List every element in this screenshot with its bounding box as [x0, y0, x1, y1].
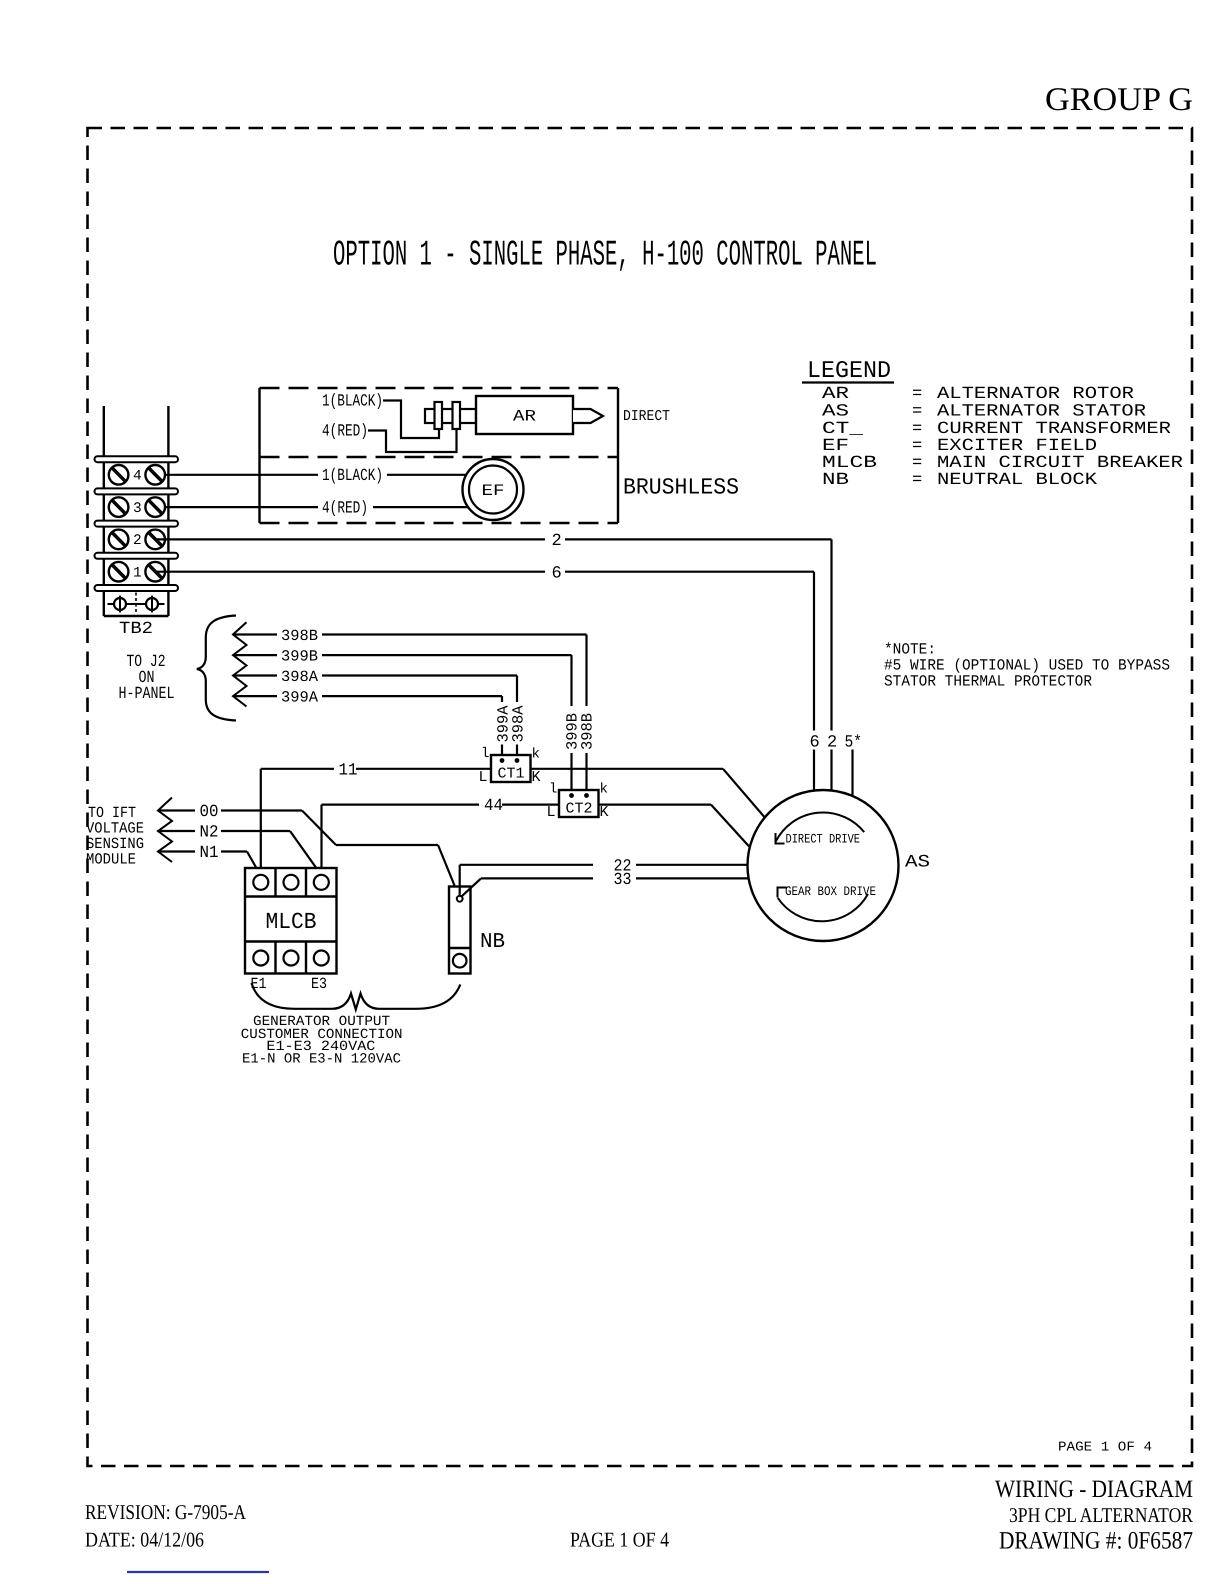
svg-text:E1-N OR E3-N 120VAC: E1-N OR E3-N 120VAC — [242, 1051, 401, 1067]
svg-text:K: K — [532, 769, 541, 786]
svg-text:k: k — [600, 782, 608, 798]
svg-text:398B: 398B — [579, 713, 597, 750]
note generator output — [241, 1014, 403, 1067]
svg-text:l: l — [481, 746, 489, 762]
svg-text:AR: AR — [822, 385, 849, 404]
rotor shaft cone tip — [573, 409, 603, 423]
svg-text:N2: N2 — [200, 824, 219, 843]
svg-text:K: K — [600, 804, 609, 821]
svg-text:33: 33 — [614, 871, 632, 890]
wire CT1 K to stator — [531, 769, 767, 820]
wire 44 — [322, 797, 560, 875]
svg-text:6: 6 — [810, 734, 820, 753]
svg-text:=: = — [912, 471, 922, 490]
gear box drive rotation arc — [778, 884, 877, 921]
svg-text:399A: 399A — [281, 689, 319, 707]
legend row AR — [822, 385, 1134, 404]
svg-text:NEUTRAL BLOCK: NEUTRAL BLOCK — [937, 471, 1098, 490]
wire 00 — [158, 803, 459, 896]
svg-text:=: = — [912, 403, 922, 422]
svg-text:WIRING - DIAGRAM: WIRING - DIAGRAM — [995, 1476, 1193, 1503]
svg-text:AS: AS — [905, 853, 930, 873]
svg-text:00: 00 — [200, 803, 219, 822]
svg-text:k: k — [532, 747, 540, 763]
neutral block NB — [449, 887, 471, 974]
TB2 terminal 2 — [109, 530, 165, 550]
svg-text:399B: 399B — [281, 648, 318, 666]
svg-text:LEGEND: LEGEND — [807, 358, 891, 385]
svg-text:AS: AS — [822, 403, 849, 422]
slip ring 1 — [435, 402, 443, 429]
svg-text:6: 6 — [552, 565, 562, 584]
drawing sheet dashed border — [88, 128, 1193, 1466]
wire 6 TB2 to stator — [157, 565, 814, 791]
legend row CT — [822, 420, 1171, 439]
svg-text:2: 2 — [133, 533, 142, 549]
exciter field EF — [463, 459, 524, 520]
wire N1 — [158, 844, 260, 874]
svg-text:H-PANEL: H-PANEL — [119, 685, 175, 704]
legend row NB — [822, 471, 1098, 490]
wire 22 — [460, 857, 749, 896]
note optional wire — [884, 641, 1170, 691]
svg-text:NB: NB — [480, 931, 505, 954]
svg-text:STATOR THERMAL PROTECTOR: STATOR THERMAL PROTECTOR — [884, 673, 1092, 691]
TB2 terminal 3 — [109, 497, 165, 517]
TB2 separator bars — [95, 456, 179, 591]
svg-text:TB2: TB2 — [119, 620, 153, 639]
wire 5 optional bypass — [851, 750, 853, 797]
wire 2 TB2 to stator — [157, 532, 832, 792]
wire 4(RED) to rotor slip ring — [322, 423, 457, 453]
IFT arrow zigzag — [158, 798, 172, 863]
wire 399B — [233, 648, 572, 795]
svg-text:L: L — [479, 769, 488, 786]
svg-text:L: L — [547, 804, 556, 821]
footer link underline — [127, 1571, 269, 1573]
svg-text:DIRECT: DIRECT — [623, 408, 670, 425]
svg-text:EF: EF — [482, 482, 505, 500]
svg-text:44: 44 — [484, 797, 503, 816]
wire 1(BLACK) to rotor slip ring — [322, 393, 439, 439]
svg-text:N1: N1 — [200, 844, 219, 863]
svg-text:CT1: CT1 — [498, 766, 525, 783]
wire 398A — [233, 668, 517, 759]
label TO IFT VOLTAGE SENSING MODULE — [86, 804, 144, 869]
svg-text:PAGE 1 OF 4: PAGE 1 OF 4 — [1058, 1441, 1152, 1456]
main circuit breaker MLCB — [245, 868, 337, 974]
svg-text:NB: NB — [822, 471, 849, 490]
svg-text:3: 3 — [133, 501, 142, 517]
wire 399A — [233, 689, 502, 760]
svg-text:1(BLACK): 1(BLACK) — [322, 393, 383, 412]
svg-text:2: 2 — [827, 734, 837, 753]
svg-text:398A: 398A — [281, 668, 319, 686]
svg-text:DRAWING #: 0F6587: DRAWING #: 0F6587 — [999, 1528, 1193, 1555]
harness brace to J2 — [197, 616, 236, 721]
svg-text:398B: 398B — [281, 627, 318, 645]
alternator dashed enclosure — [260, 388, 619, 523]
current transformer CT2 — [559, 790, 599, 818]
svg-text:4(RED): 4(RED) — [322, 423, 368, 442]
harness arrow zigzag — [233, 622, 247, 706]
customer connection brace — [252, 983, 461, 1010]
TB2 terminal 1 — [109, 562, 165, 582]
svg-text:MLCB: MLCB — [266, 909, 317, 935]
legend title — [802, 358, 894, 385]
wire TB2-4 to EF 1(BLACK) — [157, 467, 467, 486]
legend row AS — [822, 403, 1146, 422]
label TO J2 ON H-PANEL — [119, 653, 175, 704]
svg-text:ALTERNATOR STATOR: ALTERNATOR STATOR — [937, 403, 1146, 422]
svg-text:5*: 5* — [845, 734, 863, 753]
legend row EF — [822, 437, 1097, 456]
wire TB2-3 to EF 4(RED) — [157, 500, 469, 519]
alternator rotor AR body — [476, 396, 573, 434]
direct drive rotation arc — [776, 812, 865, 846]
terminal block TB2 body — [104, 406, 169, 616]
svg-text:4: 4 — [133, 469, 142, 485]
NB junction node — [457, 896, 463, 902]
wire 33 — [462, 871, 750, 897]
TB2 mounting holes — [108, 593, 165, 614]
svg-text:DATE: 04/12/06: DATE: 04/12/06 — [85, 1528, 204, 1552]
svg-text:4(RED): 4(RED) — [322, 500, 368, 519]
wire 398B — [233, 627, 587, 794]
legend row MLCB — [822, 454, 1183, 473]
alternator rotor AR shaft — [425, 409, 476, 423]
svg-text:GEAR BOX DRIVE: GEAR BOX DRIVE — [785, 884, 876, 899]
svg-text:E3: E3 — [311, 975, 327, 993]
svg-text:2: 2 — [552, 532, 562, 551]
svg-text:l: l — [549, 782, 557, 798]
svg-text:PAGE 1 OF 4: PAGE 1 OF 4 — [570, 1528, 669, 1552]
svg-text:DIRECT DRIVE: DIRECT DRIVE — [786, 832, 861, 847]
svg-text:3PH CPL ALTERNATOR: 3PH CPL ALTERNATOR — [1009, 1503, 1193, 1527]
svg-text:AR: AR — [513, 408, 536, 426]
svg-text:ALTERNATOR ROTOR: ALTERNATOR ROTOR — [937, 385, 1134, 404]
alternator stator AS — [748, 790, 899, 941]
wire CT2 K to stator — [599, 805, 751, 848]
TB2 terminal 4 — [109, 465, 165, 485]
svg-text:GROUP G: GROUP G — [1045, 82, 1193, 118]
svg-text:398A: 398A — [510, 705, 528, 743]
svg-text:11: 11 — [339, 761, 358, 780]
svg-text:MODULE: MODULE — [86, 851, 136, 869]
svg-text:1: 1 — [133, 565, 142, 581]
svg-text:CT2: CT2 — [566, 801, 593, 818]
svg-text:=: = — [912, 385, 922, 404]
wire N2 — [158, 824, 320, 873]
svg-text:1(BLACK): 1(BLACK) — [322, 467, 383, 486]
slip ring 2 — [453, 402, 461, 429]
svg-text:OPTION 1 - SINGLE PHASE, H-100: OPTION 1 - SINGLE PHASE, H-100 CONTROL P… — [333, 235, 877, 276]
current transformer CT1 — [491, 755, 531, 783]
wire 11 — [261, 761, 491, 874]
svg-text:BRUSHLESS: BRUSHLESS — [623, 475, 739, 501]
svg-text:REVISION: G-7905-A: REVISION: G-7905-A — [85, 1500, 247, 1524]
